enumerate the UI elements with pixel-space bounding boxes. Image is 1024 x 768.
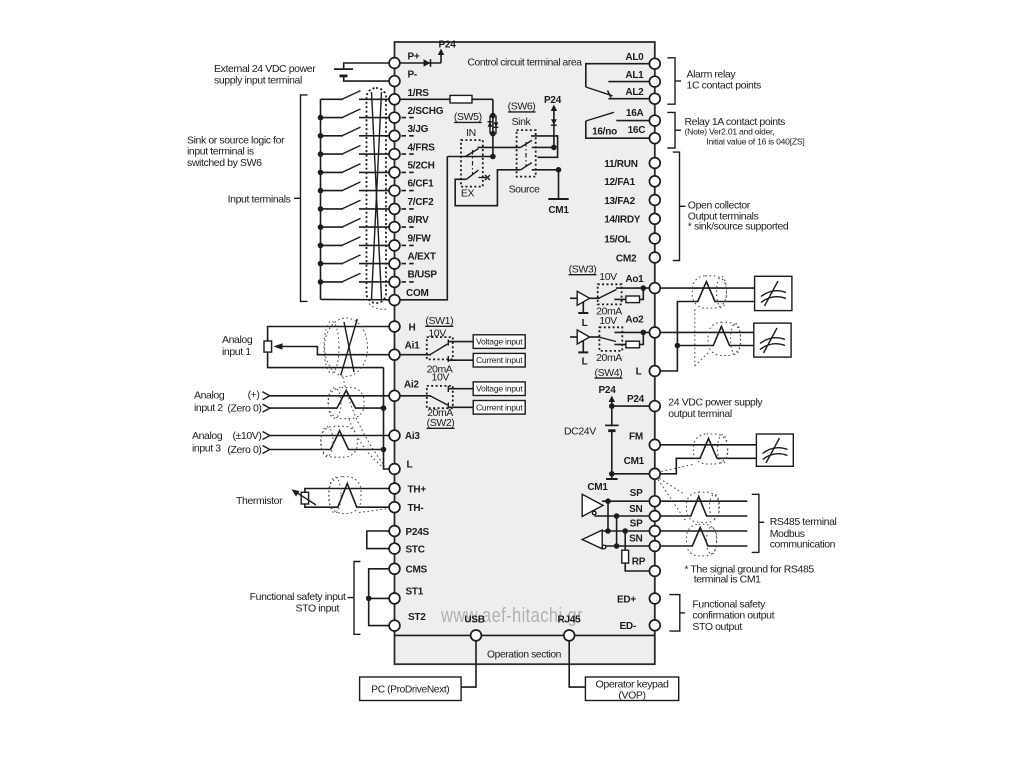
wire P24 output bbox=[609, 403, 650, 409]
switch 1/RS bbox=[321, 91, 390, 100]
switch 9/FW bbox=[318, 237, 390, 249]
node Ai3 zero junction bbox=[381, 447, 387, 453]
svg-text:External 24 VDC power: External 24 VDC power bbox=[214, 63, 316, 75]
chevron +-10V bbox=[263, 432, 270, 440]
wire SN lower internal bbox=[605, 545, 650, 547]
wire SW4 10V contact to Ao2 bbox=[614, 330, 649, 336]
terminal USB bbox=[464, 615, 484, 641]
P24 arrow sink supply bbox=[544, 95, 562, 147]
svg-text:P-: P- bbox=[408, 70, 418, 81]
svg-text:COM: COM bbox=[406, 288, 429, 299]
chevron zero 3 bbox=[263, 446, 270, 454]
terminal Ai3 bbox=[389, 430, 420, 442]
svg-text:11/RUN: 11/RUN bbox=[604, 159, 638, 170]
svg-text:L: L bbox=[636, 367, 642, 378]
SW1 contact ticks bbox=[447, 340, 449, 363]
label P24 external arrow bbox=[598, 385, 616, 406]
svg-text:ED-: ED- bbox=[620, 621, 636, 632]
svg-text:13/FA2: 13/FA2 bbox=[604, 196, 635, 207]
svg-text:communication: communication bbox=[770, 539, 836, 551]
SW6 blade source bbox=[521, 163, 532, 170]
wire TH+ bbox=[305, 489, 389, 493]
diode P+ bbox=[424, 59, 431, 67]
switch box SW1 bbox=[427, 337, 453, 359]
relay 1A label bbox=[685, 116, 805, 146]
ground CM1 sink-source bbox=[548, 199, 569, 216]
voltage input box 2 bbox=[473, 382, 525, 396]
wire SN upper internal bbox=[594, 513, 649, 519]
wire SW3 20mA contact bbox=[614, 298, 626, 300]
wire SW1 to voltage input 1 bbox=[448, 341, 473, 343]
terminal SP lower bbox=[630, 519, 661, 537]
svg-text:14/IRDY: 14/IRDY bbox=[604, 215, 641, 226]
svg-text:CMS: CMS bbox=[406, 565, 428, 576]
control circuit terminal area main box bbox=[395, 42, 655, 664]
terminal ST2 bbox=[389, 612, 426, 631]
wire Ai3 zero with twist hump bbox=[270, 431, 384, 450]
terminal A/EXT bbox=[389, 252, 436, 270]
svg-text:8/RV: 8/RV bbox=[408, 215, 430, 226]
svg-text:L: L bbox=[582, 318, 588, 329]
svg-text:Ao1: Ao1 bbox=[625, 274, 644, 285]
terminal 2/SCHG bbox=[389, 106, 444, 123]
thermistor shield bbox=[329, 477, 361, 514]
functional safety input label bbox=[250, 591, 346, 614]
shield RS485 lower bbox=[687, 524, 717, 556]
analog common rail to L bbox=[384, 368, 390, 469]
wire Ai1 to SW1 bbox=[400, 354, 431, 356]
SW2 blade bbox=[430, 396, 448, 405]
wire 16A bbox=[616, 120, 649, 122]
wire SW4 20mA contact bbox=[614, 344, 626, 346]
svg-text:ST1: ST1 bbox=[406, 586, 424, 597]
svg-text:(VOP): (VOP) bbox=[618, 690, 645, 702]
terminal ED+ bbox=[617, 593, 660, 605]
switch A/EXT bbox=[318, 255, 390, 267]
terminal SN lower bbox=[629, 534, 660, 552]
svg-text:(±10V): (±10V) bbox=[232, 430, 261, 442]
wire meter2 return with twist hump bbox=[677, 326, 753, 345]
battery DC24V bbox=[605, 406, 619, 474]
svg-text:Analog: Analog bbox=[192, 430, 223, 442]
svg-text:P24S: P24S bbox=[406, 527, 430, 538]
wire 16C common bbox=[586, 121, 650, 138]
wire P+ to internal P24 bbox=[400, 62, 441, 64]
switch 3/JG bbox=[318, 127, 390, 139]
SW5 blade IN bbox=[466, 149, 479, 157]
terminal 11/RUN bbox=[604, 158, 660, 170]
terminal 16A bbox=[626, 108, 660, 126]
wire CM1 bbox=[609, 471, 650, 477]
svg-text:3/JG: 3/JG bbox=[408, 124, 429, 135]
terminal CMS bbox=[389, 563, 427, 575]
terminal B/USP bbox=[389, 270, 437, 288]
terminal 13/FA2 bbox=[604, 195, 660, 207]
svg-text:Alarm relay: Alarm relay bbox=[687, 68, 737, 80]
wire USB to PC box bbox=[461, 641, 476, 687]
svg-text:(SW5): (SW5) bbox=[454, 111, 482, 123]
svg-text:STO output: STO output bbox=[692, 621, 742, 633]
svg-text:12/FA1: 12/FA1 bbox=[604, 177, 635, 188]
svg-text:STC: STC bbox=[406, 544, 425, 555]
node diode bottom bbox=[490, 131, 496, 137]
label (SW2) bbox=[427, 417, 455, 429]
svg-text:terminal is CM1: terminal is CM1 bbox=[694, 574, 761, 586]
svg-text:AL0: AL0 bbox=[625, 52, 644, 63]
svg-text:ED+: ED+ bbox=[617, 594, 636, 605]
wire H bbox=[268, 327, 390, 342]
switch box SW4 bbox=[599, 327, 622, 351]
terminal 16C bbox=[628, 125, 661, 144]
svg-text:A/EXT: A/EXT bbox=[408, 252, 436, 263]
functional safety input wires bbox=[366, 569, 389, 626]
svg-text:(Zero 0): (Zero 0) bbox=[227, 402, 261, 414]
svg-text:SP: SP bbox=[630, 488, 643, 499]
terminal ST1 bbox=[389, 586, 424, 603]
svg-text:(SW1): (SW1) bbox=[425, 315, 453, 327]
svg-text:(Note) Ver2.01 and older,: (Note) Ver2.01 and older, bbox=[685, 126, 775, 136]
shield analog 3 bbox=[321, 426, 358, 457]
analog input 1 label bbox=[222, 334, 253, 358]
operation section divider bbox=[395, 634, 655, 636]
P24 arrow at P+ bbox=[438, 40, 456, 64]
svg-text:Control circuit terminal area: Control circuit terminal area bbox=[468, 57, 583, 69]
terminal 8/RV bbox=[389, 215, 429, 232]
svg-text:EX: EX bbox=[461, 188, 475, 200]
wire pot bottom to analog common bbox=[268, 352, 384, 368]
RS485 ground note bbox=[684, 563, 814, 585]
svg-text:CM1: CM1 bbox=[587, 482, 608, 493]
svg-text:Current input: Current input bbox=[476, 402, 523, 412]
RS485 label bbox=[770, 516, 837, 551]
terminal RJ45 bbox=[558, 615, 582, 641]
svg-text:16/no: 16/no bbox=[592, 126, 617, 137]
terminal 6/CF1 bbox=[389, 179, 434, 196]
label (SW3) bbox=[569, 264, 597, 276]
switch 7/CF2 bbox=[318, 200, 390, 212]
svg-text:L: L bbox=[582, 357, 588, 368]
switch B/USP bbox=[318, 273, 390, 285]
wire Ai1 wiper arrow bbox=[274, 343, 390, 354]
wire Ao1 to meter bbox=[660, 287, 754, 289]
svg-text:input 1: input 1 bbox=[222, 346, 251, 358]
svg-text:Sink or source logic for: Sink or source logic for bbox=[187, 134, 285, 146]
wire EX loop bbox=[455, 170, 520, 206]
svg-text:Ai2: Ai2 bbox=[404, 380, 420, 391]
svg-text:output terminal: output terminal bbox=[668, 408, 732, 420]
wire meter3 return to CM1 with twist hump bbox=[660, 439, 756, 474]
svg-text:B/USP: B/USP bbox=[408, 270, 438, 281]
wire COM riser to SW5 bbox=[400, 157, 493, 300]
svg-text:(SW2): (SW2) bbox=[427, 417, 455, 429]
wire SN upper external with twist hump bbox=[660, 497, 747, 517]
alarm relay bracket bbox=[667, 58, 681, 104]
svg-text:TH-: TH- bbox=[408, 503, 424, 514]
shield analog 2 drain dotted bbox=[349, 419, 384, 468]
battery plate long (P+) bbox=[334, 68, 353, 70]
wire P+ to battery bbox=[344, 63, 390, 69]
wire FM to meter bbox=[660, 444, 756, 446]
chevron zero 2 bbox=[263, 404, 270, 412]
alarm relay label bbox=[687, 68, 761, 91]
wire resistor to Ao2 bbox=[640, 332, 644, 344]
terminal STC bbox=[389, 543, 425, 555]
svg-text:Voltage input: Voltage input bbox=[476, 337, 523, 347]
analog input 2 label bbox=[194, 390, 225, 414]
terminal L analog out bbox=[636, 366, 661, 378]
node diode top bbox=[490, 113, 496, 119]
svg-text:Current input: Current input bbox=[476, 355, 523, 365]
relay 16 blade bbox=[586, 112, 614, 121]
svg-text:confirmation output: confirmation output bbox=[692, 609, 774, 621]
svg-text:CM1: CM1 bbox=[624, 456, 645, 467]
ground stub below CM1 battery bbox=[606, 474, 618, 479]
sink/source note bbox=[187, 134, 285, 169]
terminal RP bbox=[632, 557, 660, 577]
shield RS485 upper bbox=[687, 492, 720, 522]
svg-text:20mA: 20mA bbox=[596, 352, 622, 364]
resistor Ao1 shunt bbox=[626, 296, 640, 303]
svg-text:input terminal is: input terminal is bbox=[187, 146, 254, 158]
svg-text:RJ45: RJ45 bbox=[558, 615, 582, 626]
wire SP lower external bbox=[660, 530, 747, 532]
label 24VDC power supply output bbox=[668, 397, 763, 420]
wire SW2 to current input 2 bbox=[448, 406, 473, 408]
terminal P+ bbox=[389, 52, 420, 69]
terminal TH+ bbox=[389, 483, 426, 495]
svg-text:AL2: AL2 bbox=[625, 87, 644, 98]
wire SW6 sink contact to P24 bbox=[532, 145, 557, 151]
wire battery to P- bbox=[344, 76, 390, 81]
svg-text:P24: P24 bbox=[598, 385, 616, 396]
open collector label bbox=[688, 200, 789, 233]
meter Ao1 bbox=[755, 276, 792, 310]
terminal 7/CF2 bbox=[389, 197, 434, 214]
input terminals bracket bbox=[294, 95, 308, 302]
shield meter1 bbox=[692, 276, 726, 308]
svg-text:AL1: AL1 bbox=[625, 70, 644, 81]
svg-text:10V: 10V bbox=[599, 271, 617, 283]
svg-text:switched by SW6: switched by SW6 bbox=[187, 157, 262, 169]
svg-text:16C: 16C bbox=[628, 125, 646, 136]
terminal AL0 bbox=[625, 52, 660, 69]
svg-text:24 VDC power supply: 24 VDC power supply bbox=[668, 397, 763, 409]
terminal TH- bbox=[389, 502, 423, 514]
terminal CM2 bbox=[616, 252, 660, 264]
wire SW5 drop bbox=[492, 99, 494, 156]
wire AL2 bbox=[608, 98, 649, 100]
wire SN lower external with twist hump bbox=[660, 528, 747, 547]
ground L under Ao2 amp bbox=[578, 341, 588, 368]
SW1 blade bbox=[430, 344, 448, 355]
svg-text:Initial value of 16 is 040[ZS]: Initial value of 16 is 040[ZS] bbox=[706, 136, 804, 146]
terminal 15/OL bbox=[604, 233, 660, 245]
terminal Ai1 bbox=[389, 341, 420, 361]
wire SP upper internal bbox=[602, 498, 650, 504]
shield analog 2 bbox=[328, 388, 364, 419]
functional safety bracket bbox=[348, 562, 361, 635]
shield analog 1 drain dotted bbox=[343, 377, 385, 467]
alarm relay blade bbox=[586, 87, 613, 98]
analog input 3 label bbox=[192, 430, 223, 454]
wire SW6 source contact to CM1 bbox=[532, 167, 562, 199]
op-amp Ao1 buffer bbox=[570, 291, 590, 305]
terminal COM bbox=[389, 288, 428, 306]
svg-text:Ai1: Ai1 bbox=[405, 341, 421, 352]
wire SW1 to current input 1 bbox=[448, 359, 473, 361]
svg-text:STO input: STO input bbox=[296, 602, 340, 614]
svg-text:2/SCHG: 2/SCHG bbox=[408, 106, 444, 117]
svg-text:(SW6): (SW6) bbox=[508, 101, 536, 113]
switch 2/SCHG bbox=[318, 109, 390, 120]
svg-text:10V: 10V bbox=[599, 315, 617, 327]
SW3 blade bbox=[599, 290, 617, 299]
svg-text:(SW3): (SW3) bbox=[569, 264, 597, 276]
svg-text:(Zero 0): (Zero 0) bbox=[227, 444, 261, 456]
svg-text:ST2: ST2 bbox=[408, 612, 426, 623]
switch 5/2CH bbox=[318, 164, 390, 176]
terminal Ao2 bbox=[625, 314, 660, 337]
shield meter3 bbox=[693, 434, 727, 464]
diode sink line bbox=[551, 119, 557, 125]
svg-text:CM2: CM2 bbox=[616, 253, 637, 264]
P24S STC jumper wire bbox=[367, 531, 389, 549]
voltage input box 1 bbox=[473, 335, 525, 349]
RS485 driver bbox=[582, 494, 603, 516]
svg-text:* sink/source supported: * sink/source supported bbox=[688, 221, 789, 233]
SW5 blade EX bbox=[466, 170, 478, 179]
svg-text:(+): (+) bbox=[248, 389, 260, 401]
terminal 1/RS bbox=[389, 88, 429, 105]
wire SP upper external bbox=[660, 500, 747, 502]
label (SW4) bbox=[594, 367, 622, 379]
terminal 12/FA1 bbox=[604, 176, 660, 188]
wire SW3 10V contact to Ao1 bbox=[616, 285, 650, 291]
terminal SN upper bbox=[629, 504, 660, 521]
svg-text:P24: P24 bbox=[544, 95, 562, 106]
svg-text:7/CF2: 7/CF2 bbox=[408, 197, 435, 208]
resistor RP termination bbox=[622, 531, 650, 571]
current input box 2 bbox=[473, 401, 525, 415]
label (SW6) bbox=[508, 101, 536, 113]
svg-text:P+: P+ bbox=[408, 52, 420, 63]
svg-text:16A: 16A bbox=[626, 108, 644, 119]
svg-text:Functional safety input: Functional safety input bbox=[250, 591, 346, 603]
switch box SW3 bbox=[598, 284, 622, 304]
RS485 receiver bbox=[582, 530, 606, 549]
terminal L analog bbox=[389, 460, 412, 475]
svg-text:Sink: Sink bbox=[512, 116, 532, 128]
wire TH- with twist hump bbox=[305, 484, 389, 508]
svg-text:H: H bbox=[409, 323, 416, 334]
wire RJ45 to keypad box bbox=[569, 641, 585, 687]
svg-text:P24: P24 bbox=[438, 40, 456, 51]
external 24VDC supply label bbox=[214, 63, 316, 87]
chevron (+) bbox=[263, 392, 270, 400]
SW5 EX contact mark bbox=[479, 175, 491, 180]
svg-text:SN: SN bbox=[629, 534, 642, 545]
shielded cable bundle over input wires bbox=[367, 88, 389, 309]
terminal 3/JG bbox=[389, 124, 429, 141]
svg-text:FM: FM bbox=[629, 432, 643, 443]
node Ai2 zero junction bbox=[381, 405, 387, 411]
terminal AL2 bbox=[625, 87, 660, 104]
svg-text:USB: USB bbox=[464, 615, 484, 626]
Operator keypad (VOP) box bbox=[585, 677, 678, 702]
svg-text:Analog: Analog bbox=[194, 390, 225, 402]
resistor Ao2 shunt bbox=[626, 341, 640, 348]
svg-text:(SW4): (SW4) bbox=[595, 367, 623, 379]
wire SP lower internal bbox=[602, 528, 649, 534]
terminal ED- bbox=[620, 620, 661, 632]
terminal Ai2 bbox=[389, 380, 419, 401]
terminal 9/FW bbox=[389, 233, 431, 251]
RS485 bracket bbox=[752, 494, 765, 552]
svg-text:TH+: TH+ bbox=[408, 484, 427, 495]
svg-text:Analog: Analog bbox=[222, 334, 253, 346]
wire Ai2 zero with twist hump bbox=[270, 390, 384, 408]
SW4 blade bbox=[599, 337, 616, 342]
clamp diode pair bbox=[488, 116, 499, 134]
terminal SP upper bbox=[630, 488, 661, 507]
svg-text:Voltage input: Voltage input bbox=[476, 384, 523, 394]
svg-text:RS485 terminal: RS485 terminal bbox=[770, 516, 837, 528]
shield link meter1 to meter2 dotted bbox=[695, 309, 709, 366]
svg-text:4/FRS: 4/FRS bbox=[408, 142, 436, 153]
wire SW6 upper contact loop bbox=[531, 136, 558, 157]
svg-text:15/OL: 15/OL bbox=[604, 234, 631, 245]
svg-text:9/FW: 9/FW bbox=[408, 233, 432, 244]
wire resistor to Ao1 bbox=[640, 288, 644, 299]
switch box SW6 bbox=[517, 130, 536, 177]
terminal P24 bbox=[627, 394, 660, 412]
switch box SW2 bbox=[427, 386, 453, 408]
svg-text:input 2: input 2 bbox=[194, 402, 223, 414]
svg-text:input 3: input 3 bbox=[192, 442, 221, 454]
wire SW5 to SW6 sink line bbox=[478, 146, 521, 148]
input common bus bbox=[320, 99, 322, 299]
open collector bracket bbox=[673, 152, 686, 260]
thermistor element bbox=[292, 489, 317, 505]
svg-text:CM1: CM1 bbox=[548, 205, 569, 216]
op-amp Ao2 buffer bbox=[570, 330, 590, 344]
svg-text:Thermistor: Thermistor bbox=[236, 495, 283, 507]
svg-text:1C contact points: 1C contact points bbox=[687, 80, 761, 92]
terminal CM1 bbox=[624, 456, 661, 479]
wire alarm relay AL0 common bbox=[586, 64, 650, 87]
SW6 mechanical link bbox=[525, 142, 527, 167]
svg-text:SP: SP bbox=[630, 519, 643, 530]
wire Ai3 bbox=[270, 435, 389, 437]
svg-text:Ai3: Ai3 bbox=[405, 431, 421, 442]
wire amp to SW4 bbox=[590, 336, 600, 338]
terminal AL1 bbox=[625, 70, 660, 87]
svg-text:Input terminals: Input terminals bbox=[228, 193, 291, 205]
wire Ai2 to SW2 bbox=[400, 395, 431, 397]
SW2 contact ticks bbox=[447, 386, 449, 409]
svg-text:Source: Source bbox=[509, 183, 540, 195]
terminal H bbox=[389, 321, 415, 333]
svg-text:RP: RP bbox=[632, 557, 646, 568]
relay 1A bracket bbox=[667, 112, 681, 148]
switch box SW5 bbox=[461, 140, 483, 187]
wire SP tie bbox=[605, 501, 611, 534]
wire meter1 return to L with twist hump bbox=[660, 282, 754, 371]
label (SW1) bbox=[425, 315, 453, 327]
node meter2 return junction bbox=[675, 343, 681, 349]
switch 4/FRS bbox=[318, 145, 390, 157]
thermistor shield drain dotted bbox=[359, 509, 389, 513]
